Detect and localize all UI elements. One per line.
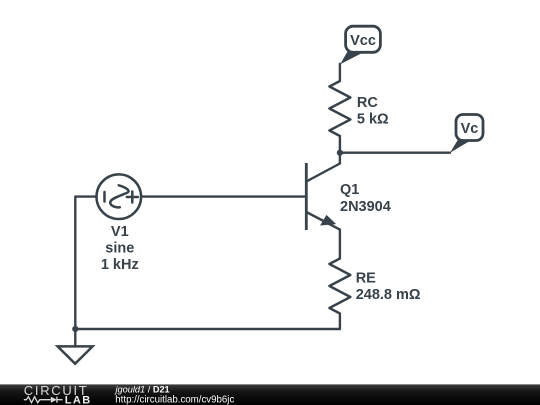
svg-text:jgould1 / D21: jgould1 / D21 (114, 385, 170, 395)
svg-text:RC: RC (357, 95, 378, 111)
svg-text:248.8 mΩ: 248.8 mΩ (356, 287, 421, 303)
svg-text:LAB: LAB (65, 394, 92, 405)
svg-text:5 kΩ: 5 kΩ (357, 112, 389, 128)
svg-text:RE: RE (356, 270, 376, 286)
svg-text:Vc: Vc (461, 121, 479, 137)
svg-text:http://circuitlab.com/cv9b6jc: http://circuitlab.com/cv9b6jc (115, 395, 234, 405)
svg-text:sine: sine (105, 241, 134, 257)
svg-text:1 kHz: 1 kHz (101, 257, 139, 273)
svg-text:Q1: Q1 (340, 182, 359, 198)
svg-text:Vcc: Vcc (350, 33, 376, 49)
svg-text:V1: V1 (111, 224, 129, 240)
svg-text:2N3904: 2N3904 (340, 199, 391, 215)
